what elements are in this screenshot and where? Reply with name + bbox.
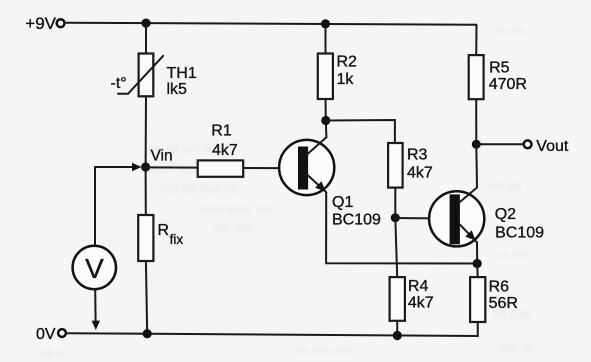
resistor R3 4k7: [388, 143, 433, 188]
resistor R6 56R: [470, 277, 518, 322]
wire: top +9V rail: [65, 23, 477, 25]
svg-text:ner iaie: ner iaie: [212, 220, 255, 235]
svg-text:etac HOr aiv: etac HOr aiv: [200, 201, 273, 216]
svg-text:R6: R6: [489, 278, 510, 295]
node: emitters / R6: [473, 259, 482, 268]
svg-text:Vin: Vin: [151, 148, 173, 165]
wire: emitter node to R6: [476, 264, 479, 278]
wire: Q2 emitter to emitter node: [476, 243, 478, 264]
svg-text:BC109: BC109: [495, 225, 544, 242]
svg-text:Q1: Q1: [332, 194, 353, 211]
wire: Rfix to 0V rail: [146, 261, 147, 334]
wire: Q1 collector up to node: [325, 121, 328, 138]
svg-text:ra tie: ra tie: [498, 247, 527, 262]
wire: node to Q2 base: [395, 217, 449, 220]
svg-text:eb o: eb o: [40, 345, 65, 360]
svg-text:R3: R3: [407, 147, 428, 164]
wire: Vout node down to Q2 collector: [475, 144, 478, 187]
svg-text:col tat ihor tq: col tat ihor tq: [162, 181, 236, 196]
svg-text:R1: R1: [211, 123, 232, 140]
node Vin: [141, 148, 173, 172]
thermistor TH1 lk5: [111, 54, 197, 99]
wire: Q1 emitter down and right to Q2 emitter: [326, 192, 477, 263]
node: R3 / R4 / Q2 base: [391, 213, 400, 222]
wire: R6 to 0V rail: [477, 322, 479, 336]
wire: R3 bottom to base node: [394, 188, 396, 218]
wire: R4 to 0V rail: [396, 321, 398, 336]
node: R5 / Vout / Q2 collector: [472, 140, 481, 149]
svg-text:4k7: 4k7: [408, 295, 434, 312]
svg-text:1k: 1k: [337, 71, 355, 88]
svg-text:het ar: het ar: [500, 339, 534, 354]
svg-text:0V: 0V: [36, 326, 56, 343]
svg-text:R2: R2: [337, 54, 358, 71]
wire: node to R3 top: [326, 120, 395, 143]
transistor Q2 BC109: [429, 188, 544, 247]
svg-text:fix: fix: [170, 232, 184, 247]
wire: Vin to Rfix: [145, 167, 147, 215]
svg-text:BC109: BC109: [332, 212, 381, 229]
node: top rail / TH1 junction: [141, 19, 150, 28]
svg-text:ec ta: ec ta: [497, 23, 526, 38]
svg-text:4k7: 4k7: [407, 165, 433, 182]
wire: bottom 0V rail: [66, 333, 478, 336]
resistor Rfix: [138, 215, 183, 261]
wire: TH1 to Vin: [145, 96, 147, 167]
svg-text:R5: R5: [489, 60, 510, 77]
node: R2 bottom / R3 / Q1 collector: [321, 116, 330, 125]
resistor R1 4k7: [146, 123, 298, 177]
Vout terminal: [476, 138, 569, 155]
svg-text:Q2: Q2: [495, 206, 516, 223]
node: 0V rail / R4 junction: [393, 331, 402, 340]
svg-text:470R: 470R: [489, 76, 527, 93]
voltmeter V: [73, 163, 142, 330]
node: 0V rail / Rfix junction: [143, 329, 152, 338]
0V terminal: [36, 326, 66, 343]
svg-text:+9V: +9V: [25, 14, 56, 33]
svg-text:R: R: [158, 222, 170, 239]
svg-text:lk5: lk5: [167, 81, 188, 98]
svg-text:R4: R4: [408, 278, 429, 295]
transistor Q1 BC109: [279, 137, 381, 228]
svg-text:vm ial: vm ial: [487, 178, 521, 193]
background bleed-through ghost text: [40, 23, 534, 360]
wire: node down to R4: [395, 218, 397, 277]
svg-text:V: V: [85, 253, 104, 284]
svg-text:Vout: Vout: [536, 138, 569, 155]
resistor R2 1k: [318, 19, 357, 120]
svg-text:-t°: -t°: [111, 75, 127, 92]
+9V supply terminal: [25, 14, 64, 33]
resistor R5 470R: [469, 25, 527, 145]
svg-text:iet sbi ceb: iet sbi ceb: [295, 343, 354, 358]
svg-text:56R: 56R: [489, 295, 518, 312]
svg-text:TH1: TH1: [167, 65, 197, 82]
svg-text:4k7: 4k7: [212, 142, 238, 159]
resistor R4 4k7: [390, 277, 434, 321]
wire: top rail to TH1: [145, 23, 147, 53]
